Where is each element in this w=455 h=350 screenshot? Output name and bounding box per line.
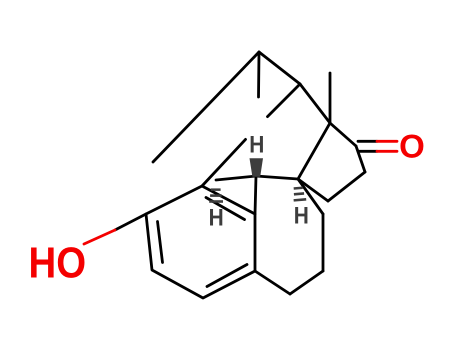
wire: lower ring bond down-right: [255, 271, 290, 294]
svg-text:H: H: [249, 131, 264, 158]
wire: lower ring bond up-right: [290, 271, 323, 294]
wire: long diagonal bond pair, upper segment: [268, 84, 301, 117]
node: aromatic ring (benzene hexagon): [146, 186, 255, 298]
node: hashed stereo wedge, left (H down): [209, 188, 223, 202]
svg-text:H: H: [294, 203, 309, 230]
node: phenol HO label: [29, 240, 87, 288]
wire: bond down-right to quaternary carbon: [300, 84, 330, 123]
node: stereo H label, right: [294, 203, 309, 230]
wire: vertical ring-fusion bond up to stereocenter: [255, 176, 256, 214]
svg-text:HO: HO: [29, 240, 87, 288]
wire: angular methyl bond (vertical): [329, 73, 332, 123]
node: hashed stereo wedge, right (H down): [292, 186, 306, 201]
svg-text:O: O: [399, 128, 425, 165]
wire: ring-fusion bond to right stereocenter: [298, 123, 330, 179]
wire: central bond to left stereocenter: [216, 176, 256, 180]
wire: lower ring diagonal bond to stereocenter: [298, 179, 323, 214]
node: stereo H label, left: [209, 204, 224, 231]
svg-text:H: H: [209, 204, 224, 231]
node: ketone C=O double bond (black halves): [358, 141, 397, 151]
wire: lower ring vertical bond: [322, 214, 325, 271]
wire: aromatic inner double-bond line, upper-right edge: [206, 198, 245, 220]
wire: cyclopentanone lower-left bond: [298, 179, 328, 201]
wire: central bond to right stereocenter: [256, 176, 298, 179]
wire: short substituent bond below apex: [257, 52, 260, 97]
wire: apex cross bond: [259, 52, 300, 84]
wire: cyclopentanone bottom bond: [328, 172, 365, 201]
node: stereo H label, top: [249, 131, 264, 158]
wire: phenol C-O bond, oxygen half (red): [84, 230, 115, 244]
wire: long upper-left diagonal bond pair: [153, 52, 259, 162]
wire: aromatic inner double-bond line, left edge: [158, 222, 163, 263]
node: bold stereo wedge (H up): [250, 158, 264, 177]
wire: cyclopentanone right bond: [356, 146, 365, 172]
wire: aromatic inner double-bond line, lower-right edge: [207, 265, 247, 287]
wire: phenol C-O bond, carbon half (black): [115, 214, 146, 230]
wire: ketone C=O double bond (red halves): [377, 141, 397, 151]
wire: cyclopentanone top bond: [330, 123, 356, 146]
wire: long diagonal bond pair, lower segment (gap at H label): [202, 139, 246, 186]
